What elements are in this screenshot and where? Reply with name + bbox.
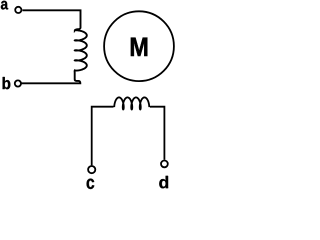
motor M1 circle bbox=[104, 11, 174, 81]
terminal d bbox=[161, 161, 168, 168]
terminal a bbox=[15, 7, 21, 13]
terminal b bbox=[15, 80, 21, 86]
terminal c bbox=[88, 166, 95, 173]
wire from c up, inductor L2 horizontal coil, wire down to d bbox=[92, 97, 165, 165]
node c label bbox=[87, 179, 95, 189]
node d label bbox=[159, 176, 168, 188]
wire a, vertical lead, inductor L1 vertical coil, wire to b bbox=[21, 10, 87, 83]
node a label bbox=[1, 1, 8, 10]
node b label bbox=[3, 77, 11, 89]
motor M1 label bbox=[131, 38, 147, 56]
